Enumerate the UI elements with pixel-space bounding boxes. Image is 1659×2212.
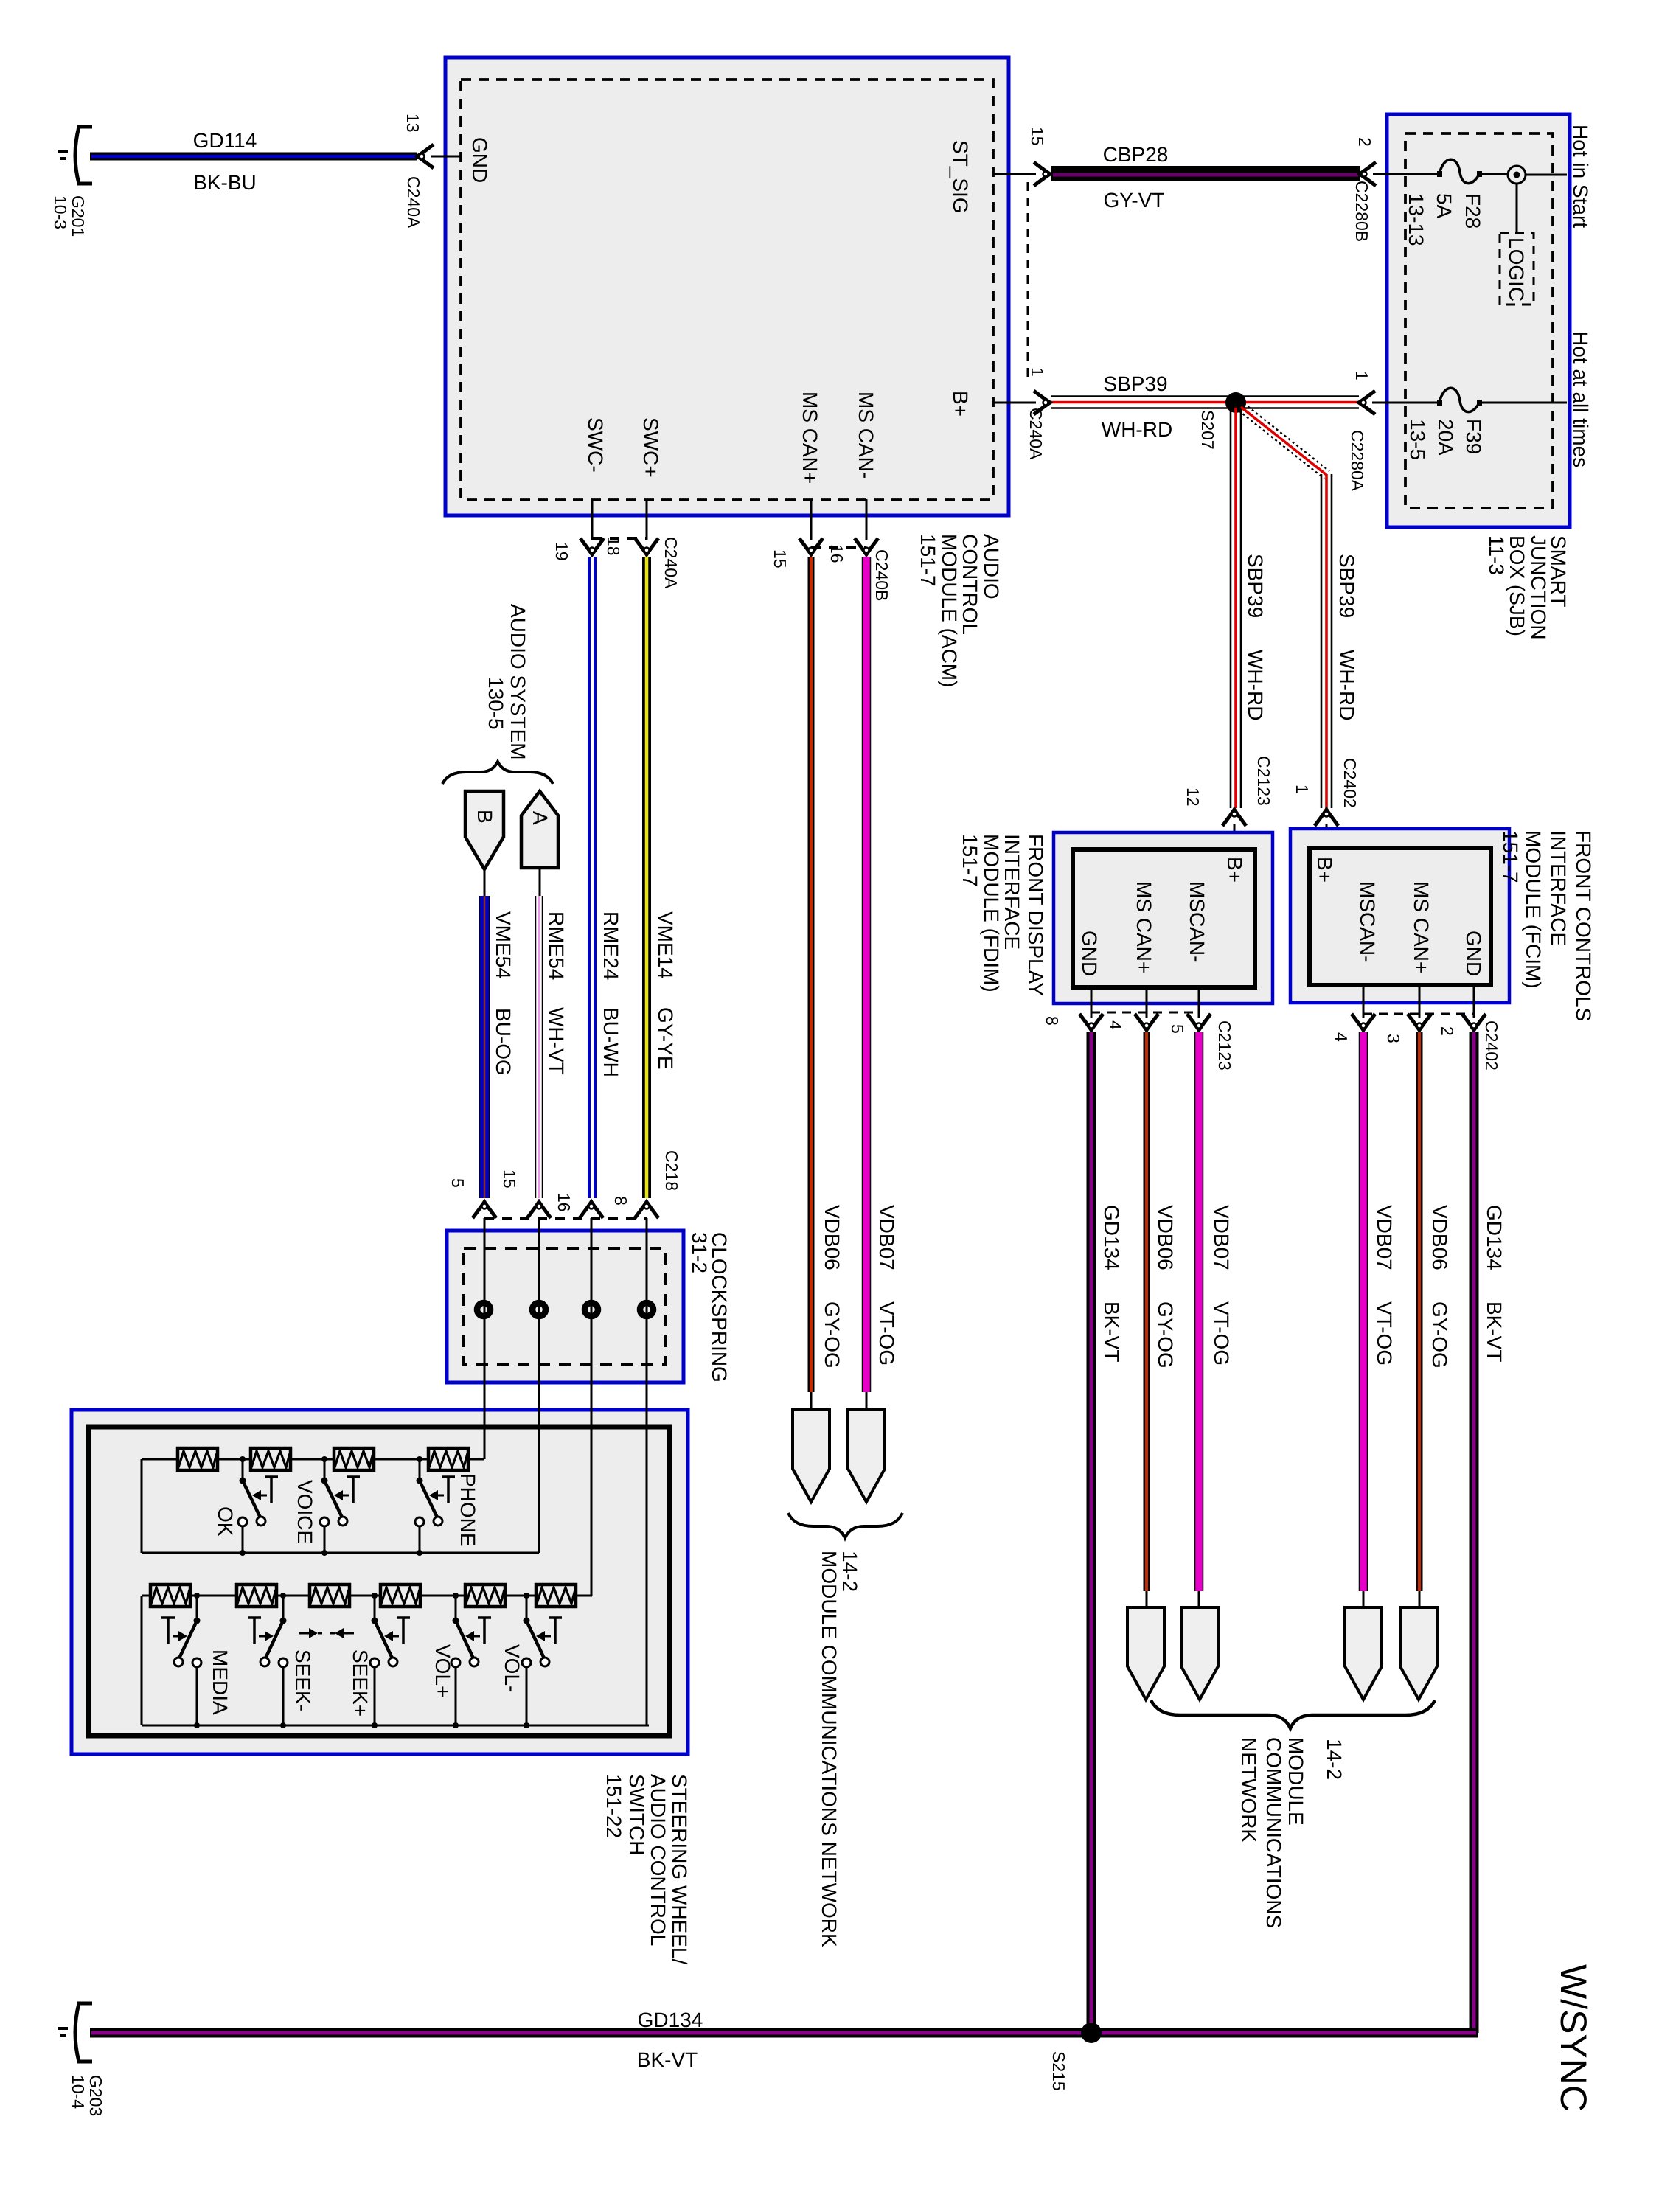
ground G201 (51, 127, 92, 237)
svg-text:COMMUNICATIONS: COMMUNICATIONS (1262, 1737, 1285, 1928)
svg-text:Hot at all times: Hot at all times (1569, 331, 1592, 467)
resistor (VOICE) (251, 1448, 291, 1470)
svg-text:BK-BU: BK-BU (193, 171, 257, 194)
svg-text:C2402: C2402 (1340, 758, 1360, 808)
svg-text:VT-OG: VT-OG (1210, 1301, 1233, 1366)
svg-text:WH-VT: WH-VT (545, 1007, 568, 1075)
module box: Front Controls Interface Module (FCIM) (1290, 829, 1509, 1003)
resistor (PHONE) (334, 1448, 374, 1470)
svg-text:14-2: 14-2 (838, 1551, 861, 1592)
wire VDB07 VT-OG (ACM MS CAN- pin 16) (866, 557, 898, 1410)
svg-text:FRONT CONTROLS: FRONT CONTROLS (1572, 830, 1595, 1021)
svg-text:STEERING WHEEL/: STEERING WHEEL/ (668, 1774, 691, 1964)
svg-text:10-4: 10-4 (69, 2075, 88, 2109)
svg-text:4: 4 (1332, 1032, 1351, 1042)
svg-text:WH-RD: WH-RD (1244, 650, 1267, 720)
svg-text:151-7: 151-7 (1499, 830, 1522, 883)
svg-text:16: 16 (554, 1193, 574, 1212)
svg-text:F39: F39 (1462, 419, 1485, 454)
svg-text:WH-RD: WH-RD (1102, 418, 1172, 441)
svg-text:4: 4 (1106, 1020, 1125, 1030)
svg-text:GD134: GD134 (1100, 1205, 1123, 1270)
svg-text:GND: GND (1078, 931, 1101, 976)
svg-text:GD114: GD114 (193, 129, 257, 152)
switch PHONE (415, 1456, 479, 1556)
svg-text:GND: GND (468, 137, 491, 183)
FDIM module name label (959, 834, 1047, 996)
resistor (VOL+) (380, 1585, 420, 1607)
svg-text:B+: B+ (1313, 857, 1336, 883)
svg-text:18: 18 (604, 537, 623, 556)
switch MEDIA (161, 1593, 232, 1728)
svg-text:LOGIC: LOGIC (1505, 237, 1528, 302)
svg-text:GND: GND (1462, 931, 1485, 976)
svg-text:INTERFACE: INTERFACE (1001, 834, 1023, 950)
wires inside steering wheel switch box (484, 1408, 647, 1725)
splice S215 (1049, 2023, 1102, 2091)
svg-text:151-7: 151-7 (959, 834, 981, 887)
svg-text:3: 3 (1384, 1034, 1403, 1043)
svg-text:2: 2 (1355, 137, 1374, 147)
svg-text:VOICE: VOICE (293, 1480, 316, 1544)
svg-text:SBP39: SBP39 (1335, 554, 1358, 618)
svg-text:MS CAN+: MS CAN+ (799, 392, 821, 484)
in-line connector pentagon B (audio system) (465, 791, 504, 896)
wire CBP28 GY-VT (ACM ST_SIG to SJB F28) (993, 143, 1405, 212)
svg-text:5: 5 (1168, 1024, 1187, 1034)
svg-text:VOL-: VOL- (501, 1644, 524, 1692)
connector C240A dashed bracket (ACM right side) (1027, 182, 1029, 377)
svg-text:CBP28: CBP28 (1103, 143, 1169, 166)
wire VDB07 VT-OG (FDIM MSCAN- pin 5) (1199, 1032, 1233, 1610)
fuse F39 20A (1387, 388, 1567, 460)
connector C218 pin arrows into clockspring (448, 1150, 681, 1218)
brace for audio system (442, 762, 553, 784)
wire RME54 WH-VT (pentagon A to clockspring pin 15) (539, 896, 568, 1198)
svg-text:2: 2 (1438, 1026, 1457, 1036)
svg-text:SEEK-: SEEK- (291, 1649, 314, 1711)
svg-text:13: 13 (403, 114, 422, 133)
svg-text:VDB06: VDB06 (1154, 1205, 1177, 1270)
resistor (OK) (178, 1448, 218, 1470)
svg-text:F28: F28 (1461, 193, 1484, 229)
svg-text:15: 15 (500, 1169, 519, 1189)
resistor (SEEK-) (237, 1585, 276, 1607)
svg-text:SEEK+: SEEK+ (349, 1649, 372, 1717)
wire SBP39 WH-RD (S207 down to FDIM B+ C2123 pin 12) (1231, 408, 1267, 808)
svg-text:VDB06: VDB06 (1428, 1205, 1451, 1270)
svg-text:BK-VT: BK-VT (1483, 1301, 1506, 1362)
FDIM bottom pin stubs and connector C2123 (1043, 987, 1234, 1071)
svg-text:MEDIA: MEDIA (209, 1649, 232, 1715)
svg-text:VME14: VME14 (654, 911, 677, 979)
connector pin 1 C240A arrow (ACM side of SBP39) (1026, 367, 1050, 460)
svg-text:NETWORK: NETWORK (1237, 1737, 1260, 1843)
svg-text:MS CAN-: MS CAN- (855, 392, 877, 479)
switch OK (214, 1456, 278, 1556)
svg-text:130-5: 130-5 (484, 677, 507, 730)
svg-text:C240A: C240A (661, 537, 681, 589)
svg-text:BU-WH: BU-WH (599, 1007, 622, 1077)
svg-text:MS CAN+: MS CAN+ (1410, 881, 1433, 973)
svg-text:WH-RD: WH-RD (1335, 650, 1358, 720)
svg-text:1: 1 (1352, 371, 1371, 380)
svg-text:SWC+: SWC+ (639, 417, 662, 478)
svg-text:151-7: 151-7 (917, 534, 939, 587)
svg-text:C2280A: C2280A (1348, 430, 1367, 492)
svg-text:GY-OG: GY-OG (1428, 1301, 1451, 1368)
svg-text:AUDIO SYSTEM: AUDIO SYSTEM (507, 604, 529, 760)
connector pin 15 arrow (ACM side of CBP28) (1028, 127, 1050, 186)
svg-text:G203: G203 (86, 2075, 105, 2116)
seek gang arrows (299, 1628, 354, 1638)
wire GD134 BK-VT (FDIM GND pin 8 to S215) (1091, 1032, 1123, 2029)
in-line connector pentagons (module communications network, left group) (793, 1410, 885, 1502)
switch VOL- (501, 1593, 562, 1728)
switch VOL+ (431, 1593, 491, 1728)
svg-text:C2123: C2123 (1254, 756, 1273, 806)
svg-text:C2280B: C2280B (1352, 181, 1371, 242)
fuse F28 5A (1387, 159, 1508, 246)
wire GD134 BK-VT (FCIM GND pin 2 to S215) (1474, 1032, 1506, 2033)
svg-text:CONTROL: CONTROL (959, 534, 981, 635)
svg-text:20A: 20A (1434, 419, 1457, 456)
module box: Front Display Interface Module (FDIM) (1054, 832, 1273, 1004)
label: module communications network 14-2 (left) (818, 1551, 861, 1947)
svg-text:11-3: 11-3 (1485, 535, 1508, 575)
FCIM module name label (1499, 830, 1595, 1021)
svg-text:10-3: 10-3 (51, 195, 70, 229)
wires through clockspring to steering wheel switch (484, 1218, 647, 1725)
svg-text:MODULE (FDIM): MODULE (FDIM) (980, 834, 1003, 992)
svg-text:SWC-: SWC- (584, 417, 607, 473)
svg-text:19: 19 (552, 542, 571, 561)
steering wheel switch name label (602, 1774, 691, 1964)
svg-text:SBP39: SBP39 (1244, 554, 1267, 618)
svg-text:BK-VT: BK-VT (1100, 1301, 1123, 1362)
wire GD134 BK-VT (G203 along bottom to FCIM GND) (90, 2008, 1478, 2071)
svg-text:C2402: C2402 (1482, 1020, 1501, 1071)
connector pin 2 C2280B arrow (SJB side of CBP28) (1352, 137, 1376, 242)
SJB module name label (1485, 535, 1570, 640)
svg-text:13-13: 13-13 (1405, 193, 1427, 246)
connector pin 1 C2402 arrow (FCIM B+) (1293, 758, 1360, 850)
svg-text:VT-OG: VT-OG (875, 1301, 898, 1366)
svg-text:31-2: 31-2 (688, 1232, 711, 1273)
FCIM bottom pin stubs and connector C2402 (1332, 985, 1501, 1071)
svg-text:W/SYNC: W/SYNC (1553, 1964, 1594, 2112)
svg-text:1: 1 (1293, 785, 1312, 794)
resistor (VOL-) (465, 1585, 505, 1607)
svg-text:OK: OK (214, 1506, 237, 1537)
label: module communications network 14-2 (right) (1237, 1737, 1346, 1928)
svg-text:MODULE (ACM): MODULE (ACM) (938, 534, 961, 687)
svg-text:RME54: RME54 (545, 911, 568, 980)
svg-text:JUNCTION: JUNCTION (1527, 535, 1550, 640)
module box: Smart Junction Box (SJB) (1387, 114, 1570, 527)
SJB logic symbol (1500, 166, 1567, 305)
wire VME14 GY-YE (ACM SWC+ pin 18 to clockspring pin 8) (647, 557, 677, 1198)
lower row bus wiring (142, 1596, 649, 1725)
svg-text:AUDIO: AUDIO (980, 534, 1003, 599)
svg-text:1: 1 (1028, 367, 1047, 377)
svg-text:VDB06: VDB06 (821, 1205, 844, 1270)
svg-text:VME54: VME54 (492, 911, 515, 979)
ground G203 (58, 2003, 105, 2116)
svg-text:13-5: 13-5 (1406, 419, 1429, 460)
svg-text:12: 12 (1183, 787, 1203, 807)
svg-text:Hot in Start: Hot in Start (1569, 125, 1592, 228)
resistor (SEEK+) (310, 1585, 349, 1607)
svg-text:A: A (529, 811, 552, 825)
splice S207 (1198, 392, 1246, 450)
svg-text:S207: S207 (1198, 410, 1217, 450)
svg-text:MSCAN-: MSCAN- (1356, 881, 1379, 962)
svg-text:VDB07: VDB07 (1210, 1205, 1233, 1270)
svg-text:MODULE (FCIM): MODULE (FCIM) (1522, 830, 1545, 989)
svg-text:MODULE COMMUNICATIONS NETWORK: MODULE COMMUNICATIONS NETWORK (818, 1551, 841, 1947)
svg-text:ST_SIG: ST_SIG (949, 140, 972, 214)
svg-text:BK-VT: BK-VT (637, 2048, 698, 2071)
clockspring contact rings (477, 1303, 653, 1316)
module box: steering wheel / audio control switch (72, 1410, 688, 1754)
svg-text:VOL+: VOL+ (431, 1644, 454, 1697)
svg-text:RME24: RME24 (599, 911, 622, 980)
svg-text:GY-YE: GY-YE (654, 1007, 677, 1070)
module box: clockspring (447, 1231, 684, 1382)
svg-text:BOX (SJB): BOX (SJB) (1506, 535, 1528, 636)
top row bus wiring (142, 1459, 539, 1553)
resistor (MEDIA) (150, 1585, 190, 1607)
wire SBP39 WH-RD diagonal (S207 to FCIM branch) (1239, 403, 1329, 479)
in-line connector pentagon A (audio system) (521, 791, 558, 896)
svg-text:GD134: GD134 (1483, 1205, 1506, 1270)
svg-text:5A: 5A (1433, 193, 1455, 219)
svg-text:SWITCH: SWITCH (625, 1774, 648, 1855)
resistor (lower row 6th) (536, 1585, 576, 1607)
brace for module communications network (left) (788, 1513, 902, 1538)
svg-text:C240B: C240B (872, 549, 891, 601)
svg-text:PHONE: PHONE (456, 1473, 479, 1547)
brace for module communications network (right) (1151, 1700, 1435, 1728)
in-line connector pentagons (module communications network, right group) (1127, 1607, 1437, 1700)
wire VDB06 GY-OG (FCIM MS CAN+ pin 3) (1419, 1032, 1451, 1610)
svg-text:S215: S215 (1049, 2051, 1068, 2091)
connector pin 13 C240A arrow at ACM GND (403, 114, 461, 229)
svg-text:B: B (473, 810, 496, 824)
svg-text:16: 16 (827, 544, 846, 563)
clockspring name label (688, 1232, 731, 1382)
resistor (top row 4th) (428, 1448, 468, 1470)
switch VOICE (293, 1456, 360, 1556)
svg-text:8: 8 (1043, 1016, 1062, 1026)
wire VDB06 GY-OG (FDIM MS CAN+ pin 4) (1147, 1032, 1177, 1610)
ACM module name label (917, 534, 1003, 687)
svg-text:GD134: GD134 (638, 2008, 703, 2031)
connector pin 12 C2123 arrow (FDIM B+) (1183, 756, 1273, 852)
svg-text:VT-OG: VT-OG (1373, 1301, 1396, 1366)
svg-text:B+: B+ (1223, 857, 1246, 883)
wire VDB06 GY-OG (ACM MS CAN+ pin 15) (811, 557, 844, 1410)
svg-text:14-2: 14-2 (1323, 1739, 1346, 1780)
svg-text:INTERFACE: INTERFACE (1547, 830, 1570, 946)
wire RME24 BU-WH (ACM SWC- pin 19 to clockspring pin 16) (592, 557, 622, 1198)
svg-text:SBP39: SBP39 (1103, 372, 1167, 395)
switch SEEK+ (349, 1593, 410, 1728)
svg-text:VDB07: VDB07 (1373, 1205, 1396, 1270)
svg-text:C240A: C240A (404, 176, 423, 229)
svg-text:FRONT DISPLAY: FRONT DISPLAY (1024, 834, 1047, 996)
svg-text:8: 8 (611, 1196, 630, 1206)
svg-text:C240A: C240A (1026, 408, 1046, 460)
svg-text:MS CAN+: MS CAN+ (1133, 881, 1155, 973)
svg-text:BU-OG: BU-OG (492, 1008, 515, 1076)
wire SBP39 WH-RD (ACM B+ to SJB F39) (993, 372, 1405, 441)
svg-text:GY-OG: GY-OG (821, 1301, 844, 1368)
switch SEEK- (248, 1593, 314, 1728)
module box: Audio Control Module (ACM) (445, 58, 1009, 515)
ACM internal pin labels (468, 137, 972, 484)
svg-text:VDB07: VDB07 (875, 1205, 898, 1270)
svg-text:G201: G201 (69, 195, 88, 237)
svg-text:C218: C218 (662, 1150, 681, 1191)
wire SBP39 WH-RD (branch down to FCIM B+ C2402 pin 1) (1321, 474, 1358, 808)
svg-text:GY-OG: GY-OG (1154, 1301, 1177, 1368)
wire VME54 BU-OG (pentagon B to clockspring pin 5) (484, 896, 515, 1198)
wire GD114 BK-BU (ACM GND pin 13 to G201) (90, 129, 417, 194)
svg-text:5: 5 (448, 1178, 467, 1188)
ACM bottom pin stubs, connectors C240A / C240B (552, 499, 891, 601)
svg-text:151-22: 151-22 (602, 1774, 625, 1838)
svg-text:GY-VT: GY-VT (1104, 189, 1165, 212)
connector pin 1 C2280A arrow (SJB side of SBP39) (1348, 371, 1375, 492)
svg-text:MSCAN-: MSCAN- (1186, 881, 1208, 962)
svg-text:15: 15 (771, 549, 790, 568)
wire VDB07 VT-OG (FCIM MSCAN- pin 4) (1363, 1032, 1396, 1610)
svg-text:15: 15 (1028, 127, 1047, 146)
svg-text:C2123: C2123 (1215, 1020, 1234, 1071)
svg-text:AUDIO CONTROL: AUDIO CONTROL (647, 1774, 669, 1946)
svg-text:MODULE: MODULE (1284, 1737, 1307, 1826)
label: audio system 130-5 (484, 604, 529, 760)
svg-text:B+: B+ (949, 391, 972, 417)
